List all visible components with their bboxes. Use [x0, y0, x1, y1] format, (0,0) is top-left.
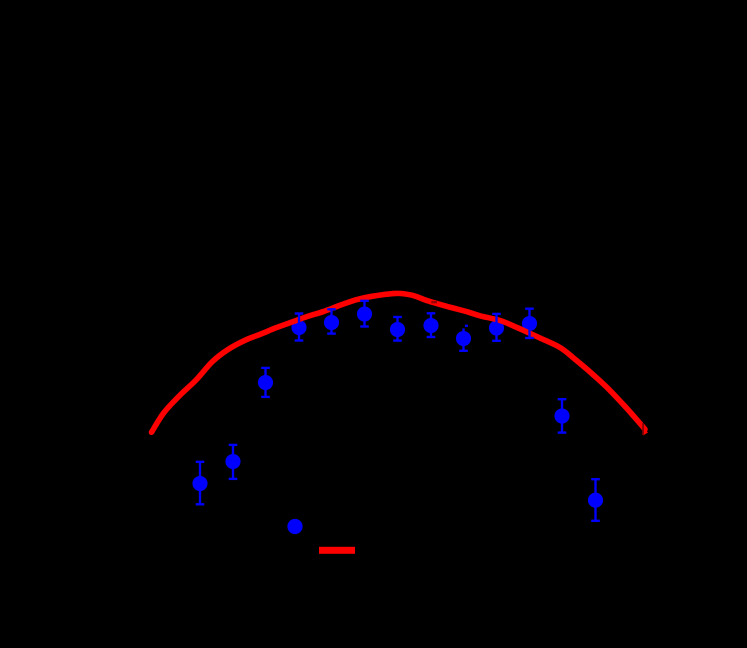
- legend data marker: [287, 519, 302, 534]
- data point P3 marker: [258, 375, 273, 390]
- fit curve: [152, 293, 646, 432]
- data point P6 error bar: [360, 301, 369, 327]
- data point P7 marker: [390, 322, 405, 337]
- curve right-end artifact: [643, 427, 649, 436]
- data point P5 error bar: [327, 309, 336, 333]
- data point P4 marker: [291, 320, 306, 335]
- data point P9 error bar: [459, 326, 468, 351]
- data point P8 marker: [423, 318, 438, 333]
- data point P12 marker: [554, 408, 569, 423]
- curve join artifact: [431, 301, 437, 303]
- data point P2 error bar: [229, 445, 238, 479]
- data point P11 marker: [522, 316, 537, 331]
- data point P7 error bar: [393, 317, 402, 341]
- data point P5 marker: [324, 315, 339, 330]
- data point P11 error bar: [525, 309, 534, 338]
- data point P3 error bar: [261, 368, 270, 397]
- data point P6 marker: [357, 306, 372, 321]
- data point P2 marker: [225, 454, 240, 469]
- data point P9 marker: [456, 331, 471, 346]
- data point P10 marker: [489, 320, 504, 335]
- data point P13 marker: [588, 493, 603, 508]
- data point P12 error bar: [558, 399, 567, 432]
- data point P13 error bar: [591, 479, 600, 521]
- legend curve sample: [319, 547, 355, 554]
- data point P1 error bar: [196, 462, 205, 505]
- data point P4 error bar: [295, 314, 304, 341]
- data point P10 error bar: [492, 314, 501, 341]
- data point P8 error bar: [427, 313, 436, 337]
- data point P1 marker: [192, 476, 207, 491]
